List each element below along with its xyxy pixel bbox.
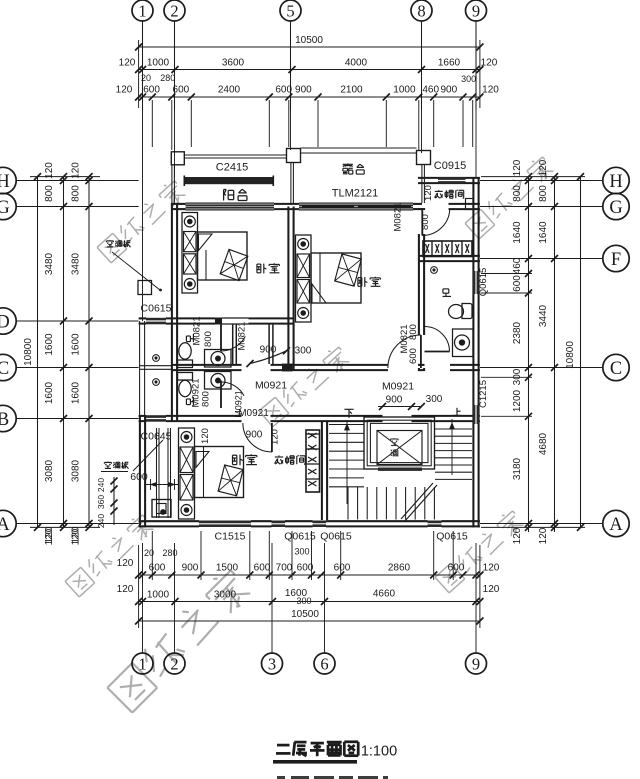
balcony left rail <box>171 165 173 203</box>
grid circle B left <box>0 405 16 431</box>
svg-text:C2415: C2415 <box>216 162 248 174</box>
svg-text:1000: 1000 <box>147 590 170 601</box>
door jamb block in wall D <box>215 318 222 325</box>
sliding door TLM2121 in wall G <box>299 203 413 209</box>
svg-text:120: 120 <box>71 528 82 545</box>
svg-text:900: 900 <box>260 345 277 356</box>
svg-text:2100: 2100 <box>340 85 363 96</box>
svg-text:Q0615: Q0615 <box>284 531 316 543</box>
room label cloakroom bottom <box>278 455 280 456</box>
svg-text:600: 600 <box>408 348 419 364</box>
grid line 2 extension to plan <box>174 110 176 177</box>
grid leader H left <box>16 180 138 182</box>
grid line 5 stem top <box>290 21 292 110</box>
wall grid1 lower <box>139 415 141 528</box>
svg-text:5: 5 <box>286 1 294 20</box>
terrace parapet left rail <box>290 163 292 204</box>
svg-text:120: 120 <box>200 428 211 444</box>
svg-text:G: G <box>609 198 622 218</box>
grid line 2 stem top <box>174 21 176 110</box>
dim line 600 platform <box>146 484 179 486</box>
wall B <box>139 415 146 417</box>
svg-text:280: 280 <box>162 548 177 558</box>
svg-text:B: B <box>0 410 9 430</box>
title 二层平面图 <box>277 744 290 747</box>
flue label marks <box>393 437 395 440</box>
svg-text:2380: 2380 <box>512 321 523 344</box>
terrace parapet top <box>301 147 417 149</box>
wall grid5 <box>287 207 289 372</box>
left AC slab sub-dimensions 240 360 240 <box>113 477 115 525</box>
top dimension extension lines <box>151 100 153 147</box>
watermark 2 <box>464 154 555 239</box>
wall grid8 <box>418 208 420 210</box>
grid circle 1 top <box>132 0 153 21</box>
svg-text:4680: 4680 <box>538 432 549 455</box>
svg-text:F: F <box>611 250 621 270</box>
svg-text:1200: 1200 <box>512 389 523 412</box>
wall C <box>171 364 242 366</box>
grid circle 9 bottom <box>466 653 487 674</box>
door M0921 bath2 leaf <box>220 381 222 409</box>
svg-text:800: 800 <box>201 391 212 407</box>
window C0615 in wall D <box>146 318 166 325</box>
stair right flight treads <box>435 429 472 479</box>
svg-text:120: 120 <box>538 527 549 544</box>
grid leader A right <box>480 523 603 525</box>
svg-text:Q0615: Q0615 <box>436 531 468 543</box>
room label bedroom bottom <box>233 454 237 456</box>
svg-text:700: 700 <box>276 563 293 574</box>
toilet right bath <box>449 305 464 319</box>
grid leader C right <box>480 367 603 369</box>
svg-text:C1215: C1215 <box>478 380 489 408</box>
wall grid3 shaft <box>268 325 270 365</box>
svg-text:C: C <box>0 359 9 379</box>
svg-text:120: 120 <box>117 558 134 569</box>
door M0821 top-right cloakroom arc <box>422 209 450 236</box>
svg-text:9: 9 <box>472 1 480 20</box>
svg-text:A: A <box>0 515 10 535</box>
wall C jamb at grid 8 <box>418 364 425 366</box>
grid leader C left <box>16 367 138 369</box>
svg-text:3480: 3480 <box>44 252 55 275</box>
svg-text:120: 120 <box>116 85 133 96</box>
grid leader F right <box>480 258 603 260</box>
stairs label down <box>344 408 353 410</box>
terrace corner post left <box>287 149 301 163</box>
svg-text:120: 120 <box>270 429 281 445</box>
svg-text:2: 2 <box>170 654 178 673</box>
grid circle A left <box>0 510 16 536</box>
AC platform label top <box>109 239 111 242</box>
shelf top-right cloakroom <box>466 199 474 210</box>
door M0921 shower room swing line <box>250 351 287 364</box>
right dimension chain 2 <box>554 177 556 532</box>
svg-text:C1515: C1515 <box>215 531 246 543</box>
stair bottom flight treads <box>348 487 434 520</box>
top dimension row 1 <box>139 69 480 71</box>
watermark 6 <box>106 566 254 714</box>
svg-text:4660: 4660 <box>373 589 396 600</box>
svg-text:460: 460 <box>422 85 439 96</box>
svg-text:3000: 3000 <box>214 590 237 601</box>
svg-text:120: 120 <box>44 528 55 545</box>
svg-text:3600: 3600 <box>222 58 245 69</box>
svg-text:3440: 3440 <box>538 304 549 327</box>
AC platform box top <box>138 281 152 295</box>
svg-text:1660: 1660 <box>438 58 461 69</box>
svg-text:6: 6 <box>320 654 328 673</box>
svg-text:600: 600 <box>143 85 160 96</box>
grid circle 6 bottom <box>314 653 335 674</box>
svg-text:8: 8 <box>417 1 425 20</box>
svg-text:1000: 1000 <box>147 58 170 69</box>
svg-text:240: 240 <box>96 478 106 492</box>
washbasin bath2 <box>205 372 232 390</box>
svg-text:800: 800 <box>538 185 549 202</box>
svg-text:900: 900 <box>440 85 457 96</box>
svg-text:1600: 1600 <box>44 333 55 356</box>
cropped second line <box>277 776 285 779</box>
svg-text:4000: 4000 <box>345 58 368 69</box>
svg-text:1640: 1640 <box>512 221 523 244</box>
grid circle C left <box>0 354 16 380</box>
bottom dimension row 2 <box>139 601 480 603</box>
room label cloakroom top-right <box>438 189 440 192</box>
right dimension chain 1 <box>528 177 530 532</box>
svg-text:900: 900 <box>386 395 403 406</box>
grid line 2 stem bottom <box>174 543 176 653</box>
svg-text:10500: 10500 <box>291 609 319 620</box>
grid leader A left <box>16 523 138 525</box>
floor drain right bath <box>431 267 438 274</box>
svg-text:3180: 3180 <box>512 457 523 480</box>
floor drain 1 <box>153 355 160 362</box>
room label bedroom top-left <box>257 263 261 265</box>
platform edge grid1 upper <box>139 321 141 419</box>
svg-text:460: 460 <box>512 257 523 274</box>
right overall dimension 10800 <box>580 177 582 528</box>
grid line 9 stem bottom <box>475 543 477 653</box>
washbasin bath1 <box>205 350 232 368</box>
svg-text:300: 300 <box>295 346 312 357</box>
wall D <box>139 317 146 319</box>
bed bottom bedroom <box>179 428 244 519</box>
door M0921 bath2 arc <box>221 382 244 396</box>
stair direction line up <box>451 419 453 475</box>
room label bath right <box>443 288 449 290</box>
svg-text:300: 300 <box>512 368 523 385</box>
svg-text:M0921: M0921 <box>234 390 244 418</box>
grid circle F right <box>603 245 629 271</box>
svg-text:1:100: 1:100 <box>361 744 397 760</box>
svg-text:H: H <box>609 172 622 192</box>
svg-text:M0821: M0821 <box>393 202 404 231</box>
svg-text:120: 120 <box>481 58 498 69</box>
svg-text:3: 3 <box>268 654 276 673</box>
balcony label 阳台 <box>223 190 225 201</box>
grid line 8 extension to plan <box>421 110 423 153</box>
svg-text:900: 900 <box>246 430 263 441</box>
svg-text:Q0615: Q0615 <box>320 531 352 543</box>
grid circle 3 bottom <box>262 653 283 674</box>
door M0821 right bath arc <box>425 327 450 352</box>
svg-text:120: 120 <box>512 159 523 176</box>
washbasin right bath <box>453 329 474 357</box>
svg-text:280: 280 <box>160 73 175 83</box>
bottom overall dimension 10500 <box>139 620 480 622</box>
right sub-dim extension lines <box>481 273 532 275</box>
grid leader H right <box>480 180 603 182</box>
svg-text:800: 800 <box>512 185 523 202</box>
svg-text:C0915: C0915 <box>434 160 466 172</box>
grid circle 8 top <box>411 0 432 21</box>
floor drain 2 <box>153 379 160 386</box>
grid circle 2 top <box>164 0 185 21</box>
grid leader B left <box>16 418 138 420</box>
svg-text:900: 900 <box>295 85 312 96</box>
svg-text:D: D <box>0 313 10 333</box>
grid line 1 stem bottom <box>142 543 144 653</box>
svg-text:3480: 3480 <box>71 252 82 275</box>
watermark 5 <box>434 508 525 593</box>
grid circle 1 bottom <box>132 653 153 674</box>
dim line stairs door <box>378 406 421 408</box>
window C2415 in wall G <box>186 203 275 209</box>
left overall dimension 10800 <box>37 177 39 528</box>
svg-text:120: 120 <box>512 527 523 544</box>
svg-text:2860: 2860 <box>388 563 411 574</box>
svg-text:M0921: M0921 <box>382 381 414 393</box>
grid line 1 stem top <box>142 21 144 110</box>
door M0921 bottom bedroom arc <box>243 423 272 452</box>
wall grid9 right outer <box>472 177 474 528</box>
grid circle H left <box>0 167 16 193</box>
svg-text:800: 800 <box>420 214 431 230</box>
grid circle G right <box>603 193 629 219</box>
top dimension row 2 <box>139 96 480 98</box>
left dimension chain 2 <box>88 177 90 528</box>
svg-text:300: 300 <box>426 394 443 405</box>
svg-text:360: 360 <box>96 495 106 509</box>
wardrobe bottom cloakroom <box>306 430 320 492</box>
door M0921 bottom bedroom leaf <box>271 423 273 452</box>
wall H top-right segment <box>418 177 480 179</box>
grid circle 2 bottom <box>164 653 185 674</box>
toilet bath1 <box>179 343 191 359</box>
grid leader G left <box>16 206 138 208</box>
svg-text:1600: 1600 <box>44 381 55 404</box>
svg-text:120: 120 <box>482 85 499 96</box>
closet strip bottom bedroom west wall <box>156 428 158 518</box>
wardrobe top-right cloakroom <box>423 241 472 257</box>
wall grid6 stairwell <box>321 422 323 520</box>
svg-text:240: 240 <box>96 514 106 528</box>
svg-text:120: 120 <box>483 563 500 574</box>
svg-text:C0615: C0615 <box>141 303 172 315</box>
bed top-left bedroom <box>182 213 248 294</box>
svg-text:2: 2 <box>170 1 178 20</box>
top overall dimension 10500 <box>139 46 480 48</box>
svg-text:800: 800 <box>408 324 419 340</box>
wall grid2 <box>171 203 173 422</box>
terrace label 露台 <box>343 163 353 165</box>
svg-text:H: H <box>0 172 10 192</box>
svg-text:1600: 1600 <box>71 333 82 356</box>
room label bath1 <box>186 334 193 342</box>
svg-text:120: 120 <box>117 584 134 595</box>
grid line 8 stem top <box>421 21 423 110</box>
grid circle 9 top <box>466 0 487 21</box>
svg-text:300: 300 <box>296 596 311 606</box>
window Q0615-1 in wall A <box>272 521 286 528</box>
svg-text:1000: 1000 <box>393 85 416 96</box>
svg-text:600: 600 <box>254 563 271 574</box>
stair left flight treads <box>329 425 364 487</box>
svg-text:300: 300 <box>461 74 476 84</box>
AC platform leader bottom <box>133 440 163 471</box>
svg-text:9: 9 <box>472 654 480 673</box>
window Q0615-2 in wall A <box>313 521 327 528</box>
grid circle A right <box>603 510 629 536</box>
left dimension chain 1 <box>63 177 65 528</box>
toilet bath2 <box>179 380 191 396</box>
svg-text:10500: 10500 <box>295 35 323 46</box>
window C1515 in wall A <box>199 521 251 528</box>
svg-text:120: 120 <box>538 159 549 176</box>
svg-text:1600: 1600 <box>71 381 82 404</box>
stair break line <box>401 483 433 519</box>
balcony corner post <box>171 152 184 165</box>
terrace corner post right <box>417 151 431 165</box>
balcony top edge <box>184 154 286 156</box>
window Q0615-3 in wall A <box>428 521 442 528</box>
grid leader G right <box>480 206 603 208</box>
svg-text:600: 600 <box>448 563 465 574</box>
window C1215 in wall grid9 <box>473 405 480 424</box>
window C0645 in wall B <box>146 415 166 422</box>
left outer-face extension lines <box>30 176 100 178</box>
grid line 9 extension to plan <box>475 110 477 177</box>
grid line 3 stem bottom <box>271 543 273 653</box>
svg-text:600: 600 <box>173 85 190 96</box>
nightstand box bottom-left bedroom <box>152 500 171 518</box>
svg-text:C: C <box>610 359 622 379</box>
door M0821 bath1 arc <box>221 336 245 351</box>
watermark 1 <box>96 178 187 263</box>
terrace parapet right rail <box>421 165 423 204</box>
bottom dimension row 1 <box>139 574 480 576</box>
watermark 3 <box>64 512 155 597</box>
stairs label up <box>456 408 458 416</box>
grid circle C right <box>603 354 629 380</box>
svg-text:800: 800 <box>203 331 214 347</box>
svg-text:800: 800 <box>44 185 55 202</box>
svg-text:M0921: M0921 <box>255 380 287 392</box>
svg-text:A: A <box>609 515 623 535</box>
balcony parapet railing on grid H <box>184 177 273 184</box>
grid line 6 stem bottom <box>324 543 326 653</box>
door M0821 middle bedroom arc <box>388 335 421 368</box>
svg-text:1: 1 <box>138 1 146 20</box>
room label bath2 <box>186 397 193 405</box>
svg-text:600: 600 <box>334 563 351 574</box>
svg-text:G: G <box>0 198 10 218</box>
wall A <box>139 520 199 522</box>
svg-text:600: 600 <box>149 563 166 574</box>
svg-text:600: 600 <box>130 471 148 483</box>
window C0915 in wall H <box>438 177 466 184</box>
wall between bath1 and shower room <box>232 325 234 365</box>
door M0821 right bath leaf <box>425 351 450 353</box>
svg-text:2400: 2400 <box>218 85 241 96</box>
grid leader D left <box>16 320 138 322</box>
grid circle 5 top <box>280 0 301 21</box>
svg-text:TLM2121: TLM2121 <box>332 188 378 200</box>
svg-text:600: 600 <box>275 85 292 96</box>
title underline <box>273 760 357 764</box>
window Q0615 in wall grid9 <box>473 271 480 294</box>
grid circle G left <box>0 193 16 219</box>
door M0821 bath1 leaf <box>220 324 222 352</box>
svg-text:1500: 1500 <box>216 563 239 574</box>
stair direction line down <box>346 420 348 504</box>
stair flue box with cross <box>364 417 435 471</box>
room label bedroom middle <box>358 277 362 279</box>
door M0821 middle bedroom leaf <box>420 335 422 368</box>
svg-text:120: 120 <box>423 185 434 201</box>
wall F <box>418 255 480 257</box>
grid circle D left <box>0 308 16 334</box>
svg-text:3080: 3080 <box>71 459 82 482</box>
platform strip divider at wall C <box>140 365 171 367</box>
bed middle bedroom <box>296 235 362 322</box>
svg-text:20: 20 <box>141 73 151 83</box>
AC platform leader top <box>112 252 160 290</box>
grid line 5 extension to plan <box>290 110 292 150</box>
svg-text:Q0615: Q0615 <box>478 268 489 297</box>
svg-text:10800: 10800 <box>565 341 576 369</box>
grid circle H right <box>603 167 629 193</box>
svg-text:M0821: M0821 <box>237 321 248 350</box>
grid line 1 extension to plan <box>142 110 144 321</box>
svg-text:1640: 1640 <box>538 221 549 244</box>
column block at shaft bottom <box>282 364 293 372</box>
bottom extension lines <box>138 545 140 628</box>
svg-text:3080: 3080 <box>44 459 55 482</box>
svg-text:900: 900 <box>182 563 199 574</box>
AC platform label bottom <box>107 461 109 464</box>
svg-text:300: 300 <box>294 547 309 557</box>
svg-text:120: 120 <box>483 584 500 595</box>
watermark 4 <box>258 344 351 427</box>
svg-text:1: 1 <box>138 654 146 673</box>
svg-text:600: 600 <box>512 275 523 292</box>
door M0821 top-right cloakroom leaf <box>421 208 423 236</box>
wall G <box>171 203 186 205</box>
grid line 9 stem top <box>475 21 477 110</box>
svg-text:10800: 10800 <box>23 338 34 366</box>
svg-text:800: 800 <box>71 185 82 202</box>
svg-text:120: 120 <box>119 58 136 69</box>
